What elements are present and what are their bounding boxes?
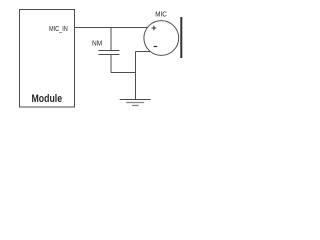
svg-text:Module: Module bbox=[32, 93, 63, 105]
microphone MK1 body bbox=[144, 21, 179, 56]
wire to ground net horizontal bbox=[111, 72, 136, 74]
capacitor C1 (NM) bbox=[98, 51, 119, 55]
wire MIC_IN net bbox=[75, 27, 148, 29]
wire microphone negative lead bbox=[136, 51, 151, 53]
svg-text:MIC: MIC bbox=[155, 9, 167, 18]
svg-text:NM: NM bbox=[92, 41, 102, 48]
wire capacitor bottom lead bbox=[110, 55, 112, 73]
microphone MK1 diaphragm bar bbox=[180, 17, 182, 58]
polarity minus bbox=[154, 46, 158, 48]
ground bbox=[120, 100, 151, 106]
wire ground net vertical bbox=[135, 52, 137, 100]
svg-text:MIC_IN: MIC_IN bbox=[49, 24, 68, 33]
module U1 bbox=[20, 10, 75, 108]
polarity plus bbox=[152, 26, 157, 31]
wire capacitor top lead bbox=[110, 28, 112, 51]
